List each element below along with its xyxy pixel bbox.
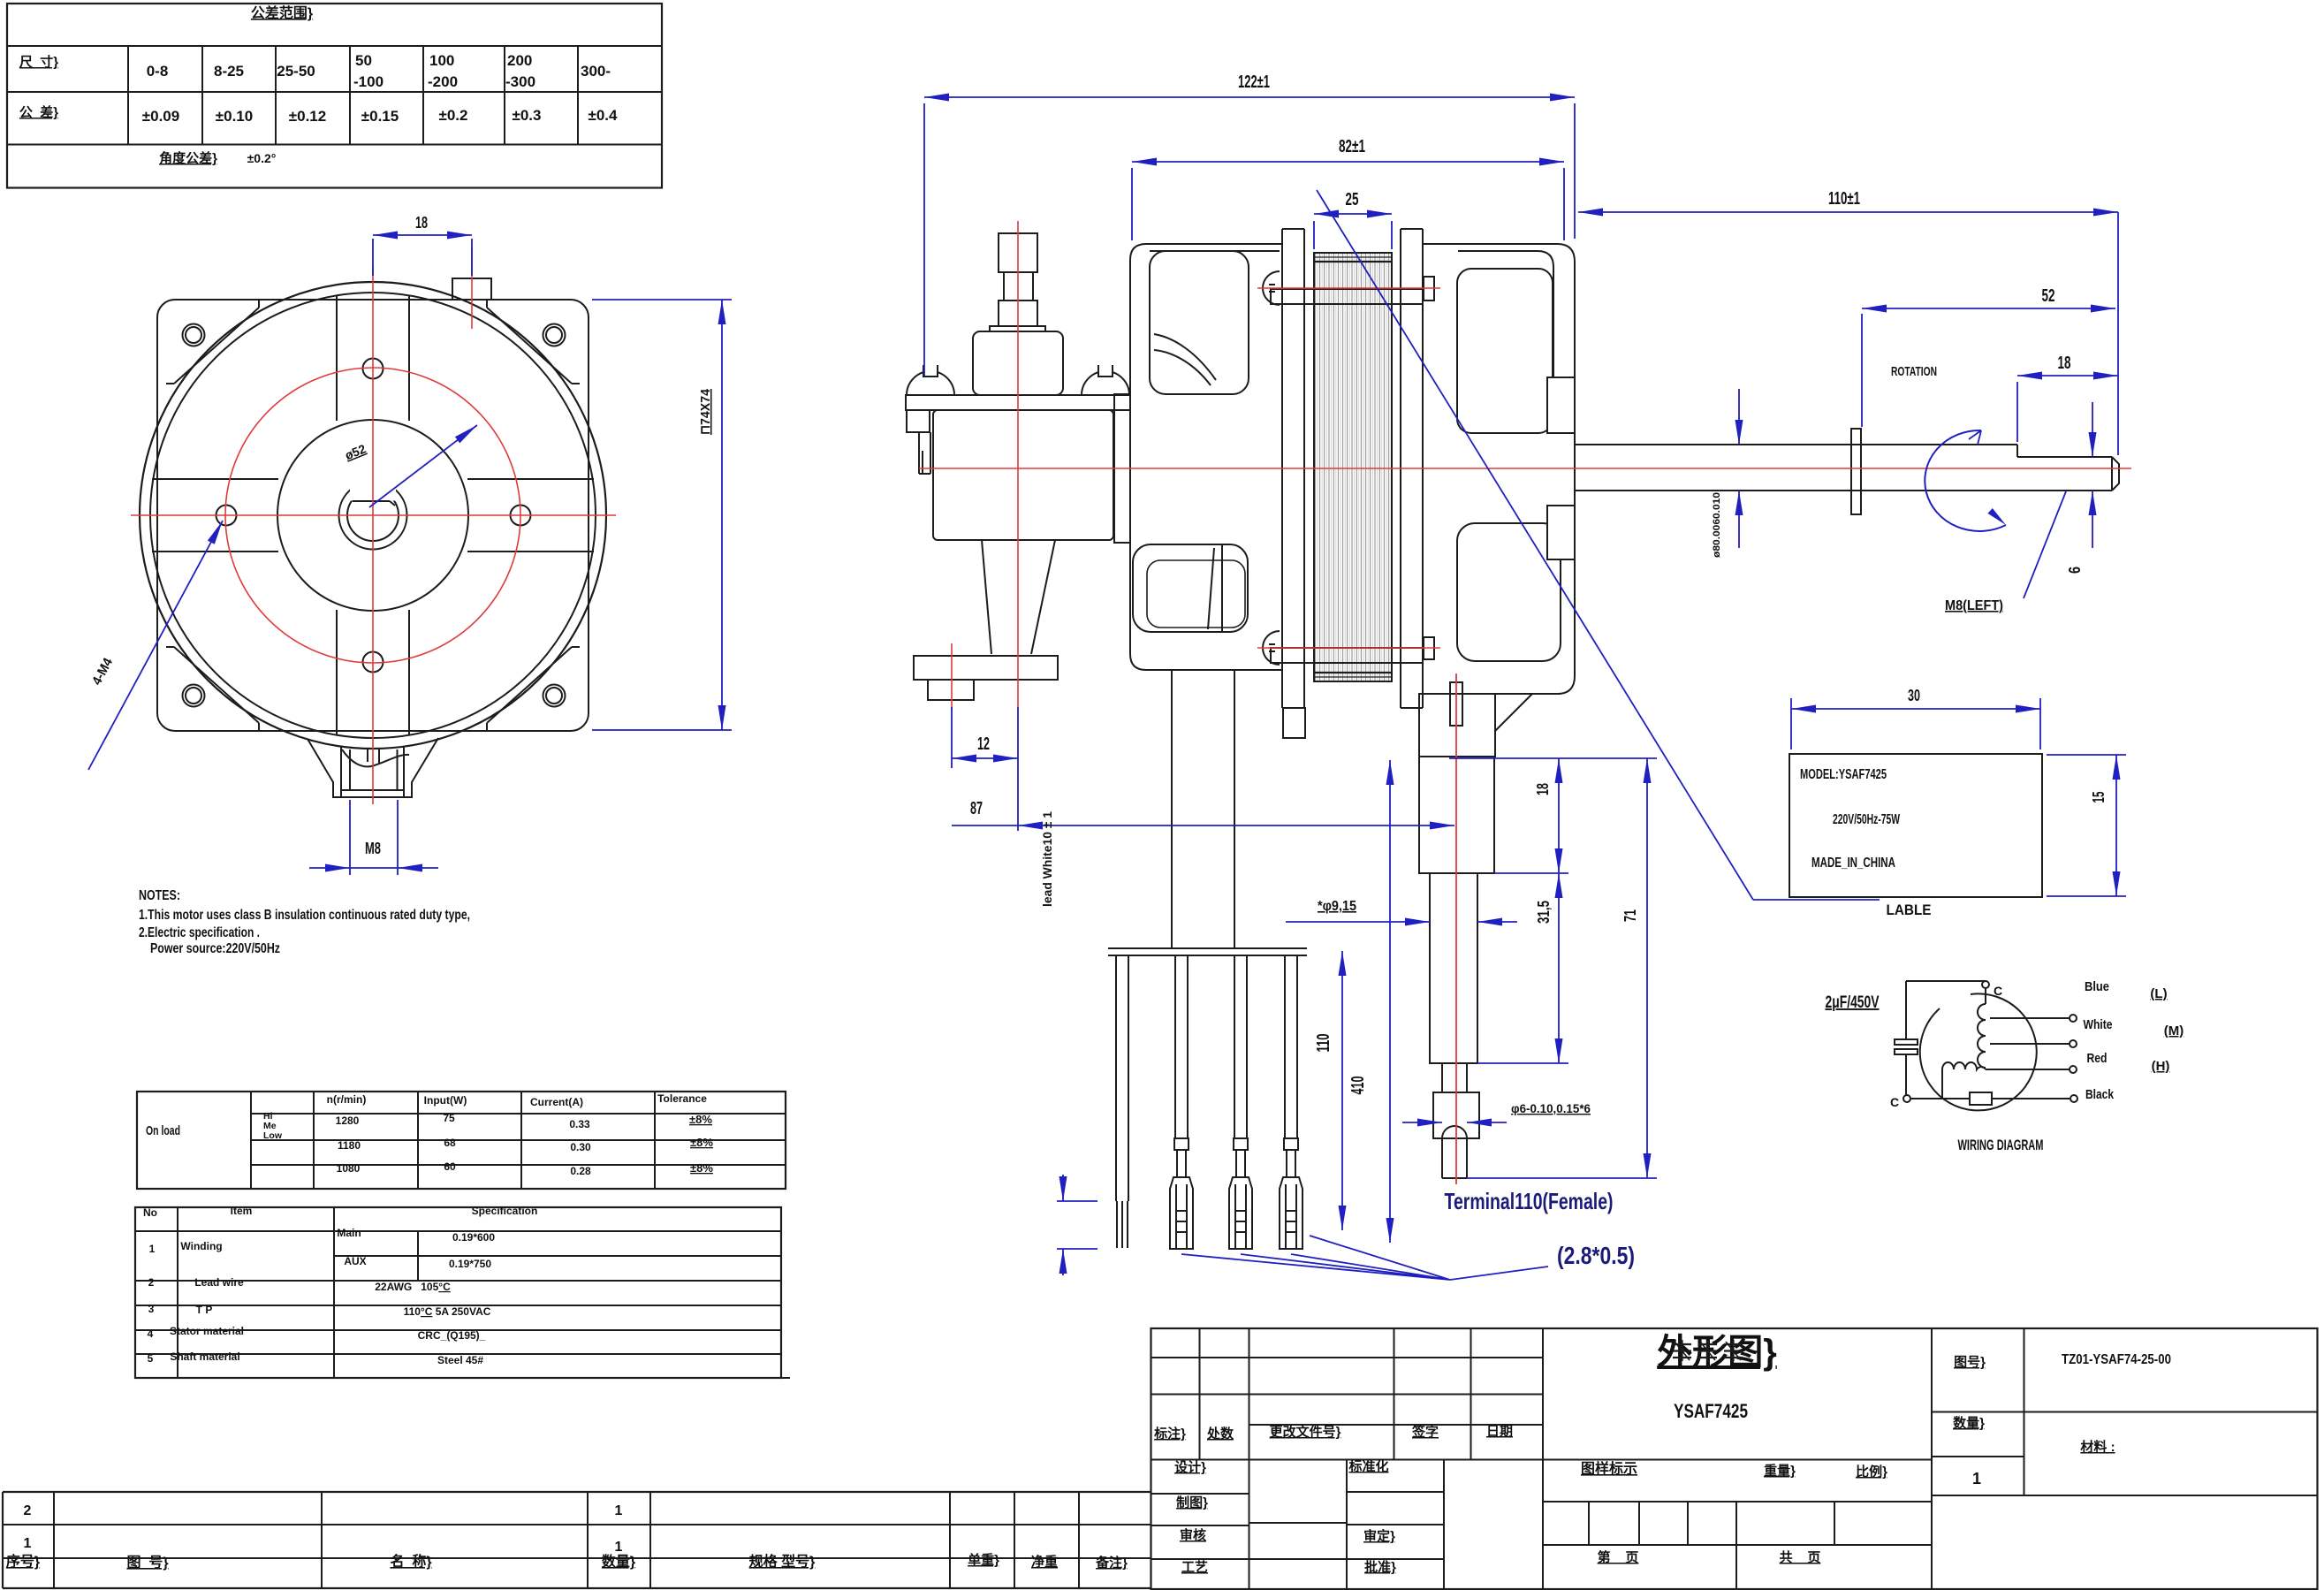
- svg-text:-300: -300: [505, 73, 535, 90]
- svg-text:1: 1: [615, 1540, 623, 1555]
- svg-text:规格 型号}: 规格 型号}: [749, 1553, 816, 1570]
- rear bracket bottom window: [1457, 523, 1561, 661]
- svg-text:±0.09: ±0.09: [142, 108, 179, 125]
- svg-text:φ6-0.10,0.15*6: φ6-0.10,0.15*6: [1511, 1101, 1591, 1115]
- svg-text:ø80.0060.010: ø80.0060.010: [1712, 492, 1722, 558]
- terminal at 1337: [1174, 955, 1176, 1138]
- svg-text:71: 71: [1621, 909, 1639, 922]
- svg-text:52: 52: [2042, 286, 2055, 306]
- svg-text:(H): (H): [2152, 1059, 2170, 1074]
- svg-text:Shaft material: Shaft material: [170, 1350, 239, 1363]
- svg-text:单重}: 单重}: [968, 1552, 999, 1568]
- rear down shaft neck: [1442, 1063, 1467, 1092]
- svg-text:M8(LEFT): M8(LEFT): [1945, 598, 2003, 613]
- tolerance table: [7, 4, 662, 188]
- svg-text:±0.2: ±0.2: [439, 107, 468, 124]
- dim ticks stripped length: [1057, 1200, 1097, 1202]
- svg-text:(2.8*0.5): (2.8*0.5): [1557, 1242, 1635, 1269]
- arm hole left: [216, 506, 237, 526]
- svg-text:±0.10: ±0.10: [216, 108, 253, 125]
- rear bearing boss notch bottom: [1547, 506, 1575, 559]
- svg-text:15: 15: [2090, 792, 2108, 803]
- small cells verticals: [1588, 1502, 1590, 1545]
- svg-text:更改文件号}: 更改文件号}: [1270, 1424, 1341, 1440]
- top clamp plate: [1271, 289, 1423, 304]
- svg-text:0.19*750: 0.19*750: [449, 1258, 491, 1270]
- svg-text:8-25: 8-25: [214, 63, 244, 80]
- corner gusset lines: [174, 308, 259, 384]
- svg-text:Specification: Specification: [472, 1205, 538, 1217]
- pin on rear shaft: [1450, 682, 1462, 726]
- rear bracket inner top edge: [1458, 251, 1553, 377]
- dim dia8: [1738, 389, 1740, 445]
- corner hole top-right: [543, 324, 566, 346]
- dim 82±1: [1131, 168, 1133, 240]
- svg-text:-100: -100: [353, 73, 384, 90]
- svg-text:Steel 45#: Steel 45#: [437, 1354, 483, 1366]
- svg-text:角度公差}: 角度公差}: [159, 150, 217, 166]
- winding taps: [1990, 1017, 2070, 1019]
- svg-text:TZ01-YSAF74-25-00: TZ01-YSAF74-25-00: [2062, 1352, 2171, 1367]
- rear bracket outline: [1424, 244, 1575, 694]
- svg-text:±8%: ±8%: [690, 1136, 713, 1149]
- dim 110±1: [2117, 212, 2119, 455]
- svg-text:NOTES:: NOTES:: [139, 888, 180, 903]
- svg-text:122±1: 122±1: [1238, 72, 1270, 92]
- top bolt head dome: [1263, 271, 1280, 305]
- svg-text:备注}: 备注}: [1095, 1555, 1128, 1571]
- svg-text:标注}: 标注}: [1153, 1426, 1186, 1442]
- corner hole top-left: [183, 324, 205, 346]
- svg-text:n(r/min): n(r/min): [327, 1093, 367, 1106]
- svg-text:审核: 审核: [1180, 1527, 1206, 1543]
- arm hole bottom: [363, 652, 384, 673]
- svg-text:标准化: 标准化: [1348, 1458, 1388, 1474]
- svg-text:设计}: 设计}: [1174, 1459, 1206, 1475]
- svg-text:110°C 5A 250VAC: 110°C 5A 250VAC: [404, 1305, 491, 1318]
- main shaft: [1575, 444, 2017, 445]
- rotor boss circle: [277, 420, 468, 611]
- svg-text:100: 100: [429, 52, 454, 69]
- motor front bracket outline: [1130, 244, 1282, 670]
- bottom protrusion (M8 boss): [308, 738, 438, 797]
- gearbox mounting pilot: [1114, 394, 1130, 543]
- red centerline rear down shaft: [1455, 673, 1457, 1184]
- rotation arc: [1925, 430, 2006, 531]
- dim dia6 end: [1402, 1122, 1442, 1123]
- svg-text:White: White: [2084, 1017, 2113, 1032]
- title block horizontals: [1151, 1357, 1544, 1358]
- wire outlet tube: [1171, 670, 1173, 948]
- svg-text:Low: Low: [263, 1130, 283, 1141]
- motor circle: [1920, 993, 2037, 1110]
- svg-text:1: 1: [615, 1503, 623, 1518]
- gearbox screw dome right: [1082, 371, 1129, 395]
- svg-text:25-50: 25-50: [277, 63, 315, 80]
- specification table: [135, 1207, 781, 1378]
- dim 110 (wires): [1341, 951, 1343, 1230]
- red top bolt centerline: [1257, 287, 1440, 289]
- svg-text:12: 12: [977, 734, 990, 754]
- gearbox lower cone: [982, 540, 991, 654]
- svg-text:第 页: 第 页: [1598, 1549, 1639, 1565]
- svg-text:110: 110: [1314, 1034, 1333, 1053]
- svg-text:YSAF7425: YSAF7425: [1674, 1400, 1748, 1422]
- svg-text:68: 68: [444, 1137, 456, 1149]
- svg-text:Current(A): Current(A): [530, 1096, 583, 1108]
- svg-text:批准}: 批准}: [1364, 1559, 1396, 1575]
- lower flange: [914, 656, 1058, 680]
- svg-text:25: 25: [1346, 190, 1359, 209]
- svg-text:On load: On load: [146, 1123, 180, 1138]
- dim 6: [2092, 402, 2093, 457]
- svg-text:30: 30: [1908, 687, 1920, 704]
- svg-text:300-: 300-: [581, 63, 611, 80]
- leader 4-M4: [88, 521, 223, 770]
- shaft collar: [1851, 429, 1861, 514]
- svg-text:82±1: 82±1: [1339, 137, 1365, 156]
- svg-text:2μF/450V: 2μF/450V: [1826, 993, 1880, 1012]
- svg-text:CRC_(Q195)_: CRC_(Q195)_: [418, 1329, 486, 1342]
- svg-text:WIRING DIAGRAM: WIRING DIAGRAM: [1958, 1137, 2044, 1153]
- svg-text:1: 1: [24, 1536, 32, 1551]
- parts list table: [3, 1491, 1151, 1493]
- title block frame: [1151, 1328, 2318, 1589]
- svg-text:2: 2: [24, 1503, 32, 1518]
- rear down shaft section 31.5: [1430, 873, 1477, 1063]
- svg-text:±8%: ±8%: [690, 1161, 713, 1175]
- arm hole top: [363, 359, 384, 379]
- svg-text:M8: M8: [365, 840, 381, 857]
- svg-text:比例}: 比例}: [1856, 1464, 1887, 1480]
- svg-text:87: 87: [970, 799, 983, 818]
- lead wires bare pair: [1115, 955, 1117, 1201]
- dim 122±1: [923, 103, 925, 376]
- stator through-bolt channels: [1281, 229, 1283, 708]
- bottom bolt head dome: [1263, 631, 1280, 665]
- red centerline crank pin: [951, 643, 953, 710]
- title block verticals: [1199, 1328, 1201, 1460]
- rear attach block: [1419, 694, 1495, 757]
- gearbox body: [933, 410, 1113, 540]
- label rectangle: [1789, 754, 2042, 897]
- svg-text:50: 50: [355, 52, 372, 69]
- wire comb bar: [1108, 947, 1307, 949]
- svg-text:0-8: 0-8: [147, 63, 169, 80]
- svg-text:材料 :: 材料 :: [2080, 1439, 2115, 1455]
- svg-text:ROTATION: ROTATION: [1891, 364, 1937, 379]
- svg-text:Black: Black: [2085, 1087, 2115, 1102]
- capacitor: [1905, 981, 1907, 1039]
- front bracket top window: [1150, 251, 1249, 394]
- svg-text:日期: 日期: [1486, 1423, 1513, 1439]
- main red axis: [919, 468, 2131, 469]
- svg-text:审定}: 审定}: [1363, 1528, 1395, 1544]
- terminal at 1461: [1284, 955, 1286, 1138]
- svg-text:1: 1: [149, 1243, 156, 1255]
- svg-text:C: C: [1890, 1095, 1899, 1109]
- svg-text:5: 5: [148, 1352, 154, 1365]
- svg-text:lead White10 ± 1: lead White10 ± 1: [1040, 811, 1054, 907]
- svg-text:Tolerance: Tolerance: [657, 1092, 707, 1105]
- top plate right step: [1424, 277, 1434, 301]
- motor outer circles: [140, 282, 606, 749]
- rear down shaft section 18: [1419, 757, 1494, 873]
- svg-text:1280: 1280: [336, 1115, 360, 1127]
- load table: [137, 1092, 786, 1189]
- leader dia52: [369, 425, 477, 507]
- front bracket bottom window: [1133, 544, 1248, 632]
- terminal at 1404: [1234, 955, 1235, 1138]
- dim 12: [951, 707, 953, 768]
- svg-text:Winding: Winding: [180, 1240, 222, 1252]
- red bolt circle dia 52: [225, 368, 520, 663]
- svg-text:处数: 处数: [1206, 1426, 1234, 1442]
- corner hole bottom-left: [183, 685, 205, 707]
- svg-text:±0.2°: ±0.2°: [247, 151, 277, 165]
- svg-text:22AWG 105°C: 22AWG 105°C: [375, 1281, 451, 1293]
- rear bracket top window: [1457, 269, 1553, 433]
- svg-text:200: 200: [507, 52, 532, 69]
- leader M8(LEFT): [2024, 491, 2066, 598]
- red bottom bolt centerline: [1257, 647, 1440, 649]
- svg-text:重量}: 重量}: [1764, 1463, 1796, 1479]
- svg-text:Red: Red: [2087, 1051, 2108, 1066]
- svg-text:1180: 1180: [338, 1139, 361, 1152]
- svg-text:外形图}: 外形图}: [1657, 1333, 1777, 1372]
- dim 52: [1861, 314, 1863, 427]
- terminal leader lines: [1181, 1236, 1548, 1280]
- title glyph strokes overlay: [1673, 1343, 1691, 1345]
- svg-text:Input(W): Input(W): [424, 1094, 467, 1107]
- svg-text:3: 3: [148, 1303, 155, 1315]
- svg-text:数量}: 数量}: [602, 1553, 635, 1570]
- svg-text:±0.3: ±0.3: [513, 107, 542, 124]
- svg-text:No: No: [143, 1206, 157, 1219]
- dim 25: [1313, 221, 1315, 249]
- svg-text:Stator material: Stator material: [170, 1325, 244, 1337]
- svg-text:MADE_IN_CHINA: MADE_IN_CHINA: [1811, 856, 1895, 871]
- svg-text:AUX: AUX: [344, 1255, 366, 1267]
- svg-text:18: 18: [2058, 354, 2071, 373]
- svg-text:MODEL:YSAF7425: MODEL:YSAF7425: [1800, 767, 1887, 782]
- svg-text:410: 410: [1348, 1076, 1368, 1095]
- svg-text:工艺: 工艺: [1181, 1560, 1208, 1575]
- svg-text:图 号}: 图 号}: [126, 1555, 168, 1571]
- svg-text:2: 2: [148, 1276, 155, 1289]
- svg-text:制图}: 制图}: [1176, 1495, 1208, 1510]
- svg-text:净重: 净重: [1031, 1554, 1058, 1570]
- oscillation output shaft stack: [999, 233, 1037, 272]
- label leader diagonal: [1317, 190, 1753, 900]
- svg-text:75: 75: [443, 1112, 455, 1124]
- svg-text:60: 60: [444, 1160, 456, 1173]
- svg-text:Lead wire: Lead wire: [194, 1276, 244, 1289]
- arm hole right: [511, 506, 531, 526]
- svg-text:Blue: Blue: [2085, 979, 2109, 994]
- bottom plate right step: [1424, 637, 1434, 659]
- svg-text:Item: Item: [231, 1205, 253, 1217]
- svg-text:共 页: 共 页: [1780, 1550, 1821, 1565]
- svg-text:18: 18: [415, 214, 428, 232]
- left screw shank: [907, 410, 930, 432]
- top wire to C: [1906, 980, 1986, 982]
- svg-text:T P: T P: [196, 1304, 213, 1316]
- svg-text:Terminal110(Female): Terminal110(Female): [1445, 1188, 1614, 1214]
- shaft flat end: [2016, 445, 2018, 457]
- dim 410: [1389, 760, 1391, 1243]
- bottom wire with fuse: [1910, 1098, 2070, 1099]
- svg-text:2.Electric specification .: 2.Electric specification .: [139, 925, 260, 940]
- svg-text:公差范围}: 公差范围}: [251, 4, 313, 21]
- gearbox cap plate: [906, 395, 1130, 410]
- svg-text:(L): (L): [2150, 986, 2167, 1001]
- svg-text:0.33: 0.33: [569, 1118, 590, 1130]
- svg-text:1.This motor uses class B insu: 1.This motor uses class B insulation con…: [139, 908, 470, 923]
- svg-text:110±1: 110±1: [1828, 189, 1860, 209]
- square mounting flange 74x74: [157, 300, 589, 731]
- svg-text:18: 18: [1534, 783, 1552, 795]
- gearbox screw dome left: [907, 371, 954, 395]
- svg-text:-200: -200: [428, 73, 458, 90]
- svg-text:0.28: 0.28: [570, 1165, 591, 1177]
- dim 18 rear shaft: [1449, 757, 1657, 759]
- svg-text:图号}: 图号}: [1954, 1355, 1986, 1370]
- dim 15 label: [2047, 754, 2126, 756]
- svg-text:尺 寸}: 尺 寸}: [19, 54, 58, 70]
- svg-text:签字: 签字: [1411, 1424, 1439, 1440]
- dim 18 shaft: [2016, 382, 2018, 442]
- top terminal tab: [452, 278, 491, 299]
- dim dia 9.15: [1286, 921, 1430, 923]
- dim M8: [349, 800, 351, 875]
- bottom clamp plate: [1271, 648, 1423, 663]
- dim 87: [952, 825, 1454, 826]
- cross arms horizontal: [152, 478, 278, 480]
- svg-text:图样标示: 图样标示: [1581, 1460, 1637, 1477]
- svg-text:0.19*600: 0.19*600: [452, 1231, 495, 1244]
- svg-text:±0.12: ±0.12: [289, 108, 326, 125]
- dim 74X74: [592, 299, 732, 301]
- main winding coil: [1978, 988, 1986, 1068]
- svg-text:31,5: 31,5: [1535, 901, 1553, 924]
- C terminal top: [1982, 981, 1989, 988]
- svg-text:数量}: 数量}: [1953, 1415, 1985, 1431]
- svg-text:Power source:220V/50Hz: Power source:220V/50Hz: [150, 941, 280, 956]
- dim 18 (front top): [372, 239, 374, 276]
- dim 31.5: [1494, 872, 1568, 874]
- svg-text:LABLE: LABLE: [1887, 902, 1932, 918]
- rear bearing boss notch top: [1547, 377, 1575, 433]
- svg-text:±8%: ±8%: [689, 1113, 712, 1126]
- svg-text:序号}: 序号}: [6, 1553, 40, 1570]
- svg-text:6: 6: [2066, 567, 2084, 574]
- svg-text:名 称}: 名 称}: [390, 1553, 431, 1570]
- lower small block: [928, 680, 974, 700]
- svg-text:±0.15: ±0.15: [361, 108, 399, 125]
- svg-text:1: 1: [1972, 1470, 1981, 1487]
- red centerline oscillation shaft: [1017, 221, 1019, 707]
- svg-text:Main: Main: [337, 1227, 361, 1239]
- corner hole bottom-right: [543, 685, 566, 707]
- svg-text:220V/50Hz-75W: 220V/50Hz-75W: [1833, 812, 1901, 827]
- winding seen in windows: [1154, 334, 1216, 380]
- svg-text:4: 4: [148, 1328, 154, 1340]
- svg-text:公 差}: 公 差}: [19, 104, 58, 120]
- svg-text:0.30: 0.30: [570, 1141, 591, 1153]
- stator lamination stack (hatched): [1314, 253, 1392, 681]
- cross arms vertical: [336, 295, 338, 421]
- center shaft hole with keyway: [339, 482, 407, 550]
- svg-text:±0.4: ±0.4: [589, 107, 619, 124]
- dim 71: [1467, 1177, 1657, 1179]
- red centerlines front view: [131, 514, 616, 516]
- dim 30 label: [1790, 698, 1792, 749]
- rear down shaft end block: [1433, 1092, 1479, 1138]
- svg-text:(M): (M): [2164, 1023, 2184, 1038]
- aux winding: [1942, 1062, 1986, 1069]
- svg-text:1080: 1080: [337, 1162, 361, 1175]
- svg-text:*φ9,15: *φ9,15: [1318, 899, 1356, 914]
- svg-text:⊓74X74: ⊓74X74: [698, 388, 713, 435]
- thermal fuse: [1970, 1092, 1992, 1105]
